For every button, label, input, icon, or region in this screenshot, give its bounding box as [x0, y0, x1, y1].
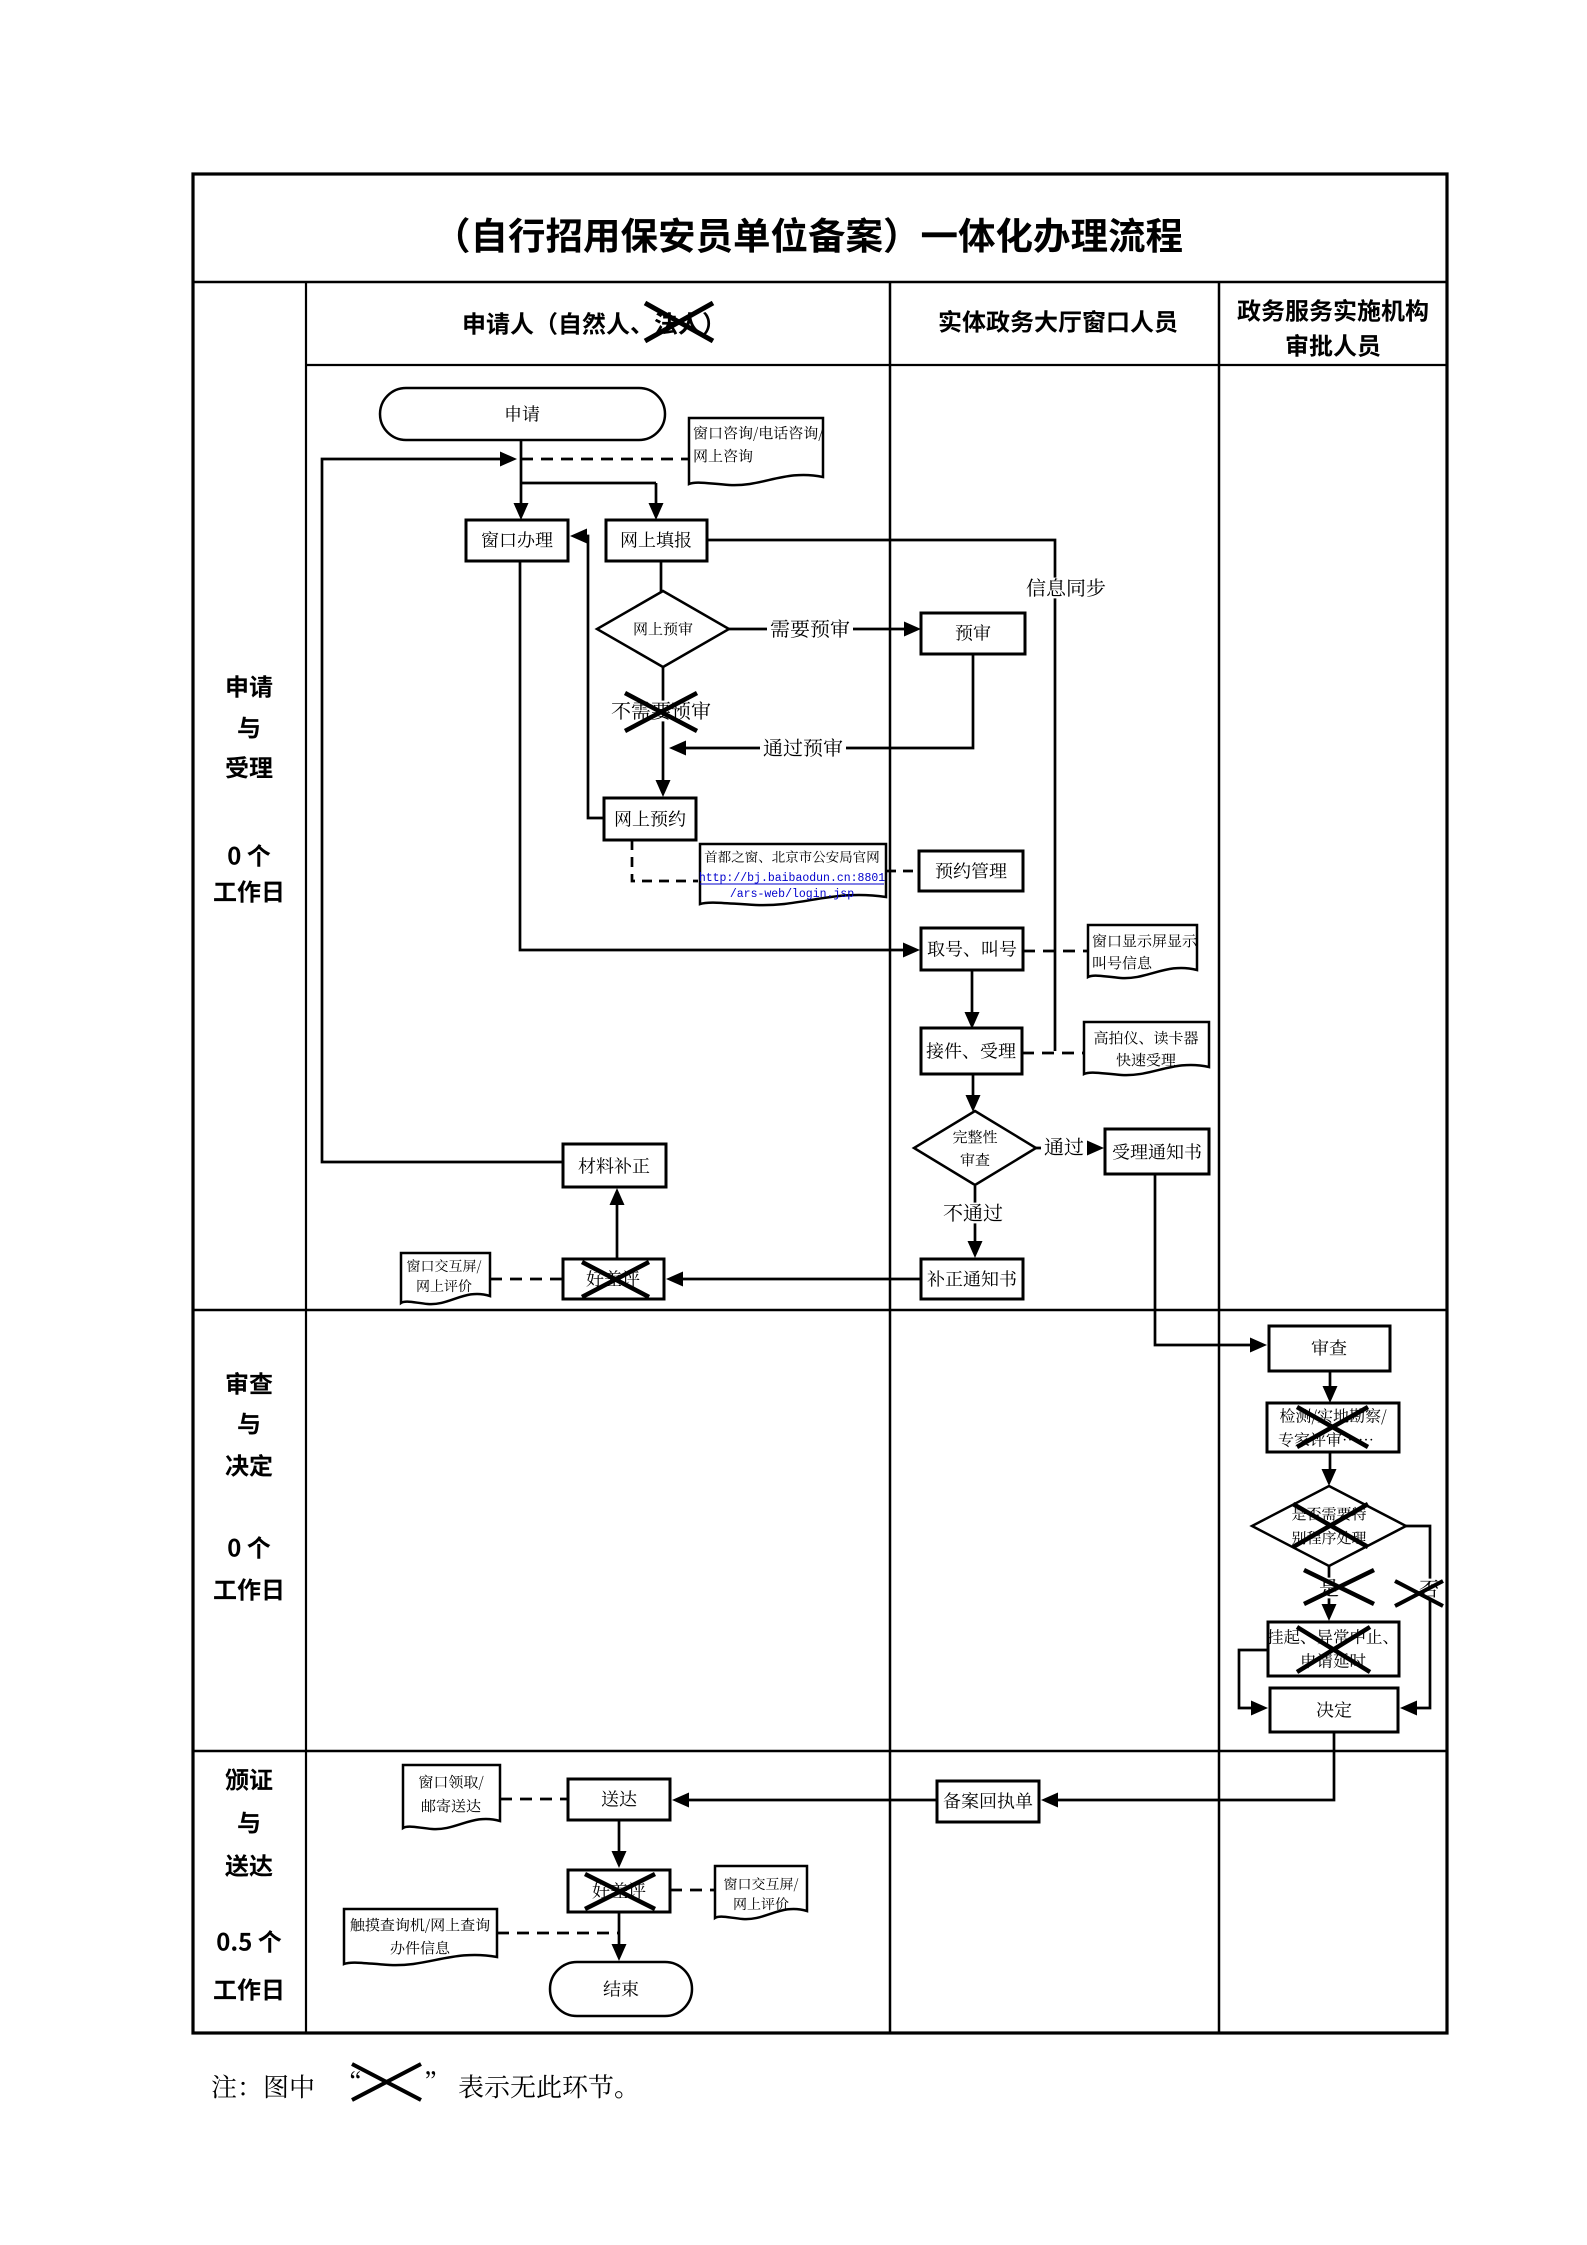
svg-text:/ars-web/login.jsp: /ars-web/login.jsp: [730, 888, 854, 901]
svg-text:http://bj.baibaodun.cn:8801: http://bj.baibaodun.cn:8801: [699, 872, 885, 885]
